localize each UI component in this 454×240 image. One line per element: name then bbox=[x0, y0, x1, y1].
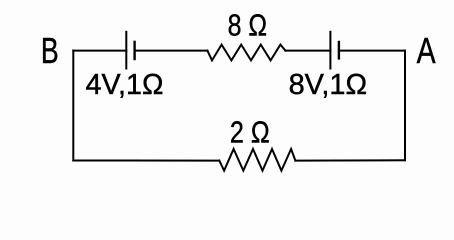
wire: top segment from left corner to battery 1 bbox=[73, 50, 126, 52]
wire: bottom segment from resistor 2Ω to right corner bbox=[295, 159, 405, 161]
wire: bottom segment from left corner to resistor 2Ω bbox=[73, 160, 219, 162]
wire: top segment between resistor 8Ω and battery 2 bbox=[285, 50, 330, 52]
battery cell 1 (4V, 1Ω): long plate and short plate bbox=[126, 32, 134, 69]
svg-text:8 Ω: 8 Ω bbox=[228, 8, 268, 43]
wire: top segment from battery 2 to right corner bbox=[339, 50, 405, 52]
svg-text:A: A bbox=[417, 30, 436, 71]
svg-text:4V,1Ω: 4V,1Ω bbox=[86, 69, 164, 101]
wire: right vertical segment (A corner down to bottom-right corner) bbox=[404, 51, 406, 161]
resistor R (8 Ω) zigzag bbox=[207, 45, 285, 61]
wire: top segment between battery 1 and resistor 8Ω bbox=[135, 50, 208, 52]
battery cell 2 (8V, 1Ω): long plate and short plate bbox=[330, 32, 339, 69]
resistor R (2 Ω) zigzag bbox=[219, 149, 295, 171]
svg-text:2 Ω: 2 Ω bbox=[230, 115, 270, 150]
svg-text:B: B bbox=[41, 30, 59, 71]
wire: left vertical segment (B corner down to bottom-left corner) bbox=[72, 51, 74, 161]
svg-text:8V,1Ω: 8V,1Ω bbox=[289, 69, 368, 101]
